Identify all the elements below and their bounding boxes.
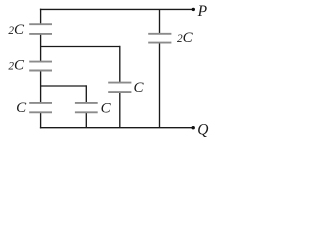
wire rail x=159.5 lower <box>159 43 161 128</box>
wire branch at y=86 <box>41 85 87 87</box>
wire left rail segment 3 <box>40 71 42 103</box>
wire left rail segment top <box>40 9 42 25</box>
wire branch at y=46.5 <box>41 46 120 48</box>
node Q dot <box>192 126 195 129</box>
svg-text:2C: 2C <box>177 30 194 46</box>
capacitor C4 (C) plates <box>75 102 98 104</box>
capacitor C3 (C) plates <box>29 102 52 104</box>
wire rail x=159.5 upper <box>159 9 161 33</box>
wire bottom rail <box>40 127 193 129</box>
capacitor C5 (C) plates <box>108 82 131 84</box>
wire rail x=119.8 lower <box>119 92 121 128</box>
svg-text:C: C <box>16 100 27 116</box>
svg-text:P: P <box>197 3 208 20</box>
wire rail x=86.3 lower <box>85 112 87 127</box>
wire rail x=119.8 upper <box>119 46 121 83</box>
svg-text:2C: 2C <box>8 22 25 38</box>
wire rail x=86.3 upper <box>85 85 87 103</box>
svg-text:2C: 2C <box>8 57 25 73</box>
wire left rail segment 2 <box>40 34 42 62</box>
svg-text:C: C <box>101 101 112 117</box>
capacitor C6 (2C) plates <box>148 33 171 35</box>
svg-text:Q: Q <box>197 122 208 139</box>
svg-text:C: C <box>134 80 145 96</box>
node P dot <box>192 8 195 11</box>
wire top rail <box>40 8 193 10</box>
wire left rail segment bottom <box>40 112 42 128</box>
capacitor C1 (2C) plates <box>29 23 52 25</box>
capacitor C2 (2C) plates <box>29 61 52 63</box>
